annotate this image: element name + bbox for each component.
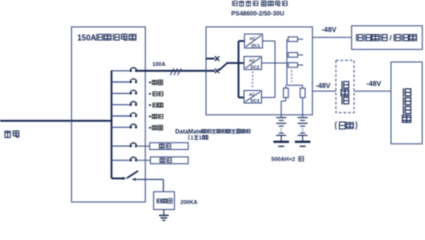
svg-text:AC: AC xyxy=(250,36,256,41)
svg-text:100A: 100A xyxy=(152,62,165,68)
svg-text:200KA: 200KA xyxy=(180,200,197,206)
svg-text:1: 1 xyxy=(199,136,202,142)
svg-text:500AH×2: 500AH×2 xyxy=(271,157,295,163)
svg-text:-48V: -48V xyxy=(366,81,381,88)
svg-text:AC: AC xyxy=(249,58,255,63)
svg-text:-48V: -48V xyxy=(322,27,337,34)
svg-text:150A: 150A xyxy=(77,33,96,42)
svg-text:DC2: DC2 xyxy=(251,64,260,69)
svg-text:1: 1 xyxy=(191,136,194,142)
svg-text:DC3: DC3 xyxy=(251,98,260,103)
svg-text:AC: AC xyxy=(249,92,255,97)
svg-text:PS48600-2/50-30U: PS48600-2/50-30U xyxy=(231,11,285,18)
svg-text:-48V: -48V xyxy=(316,83,331,90)
svg-text:DC1: DC1 xyxy=(251,43,260,48)
